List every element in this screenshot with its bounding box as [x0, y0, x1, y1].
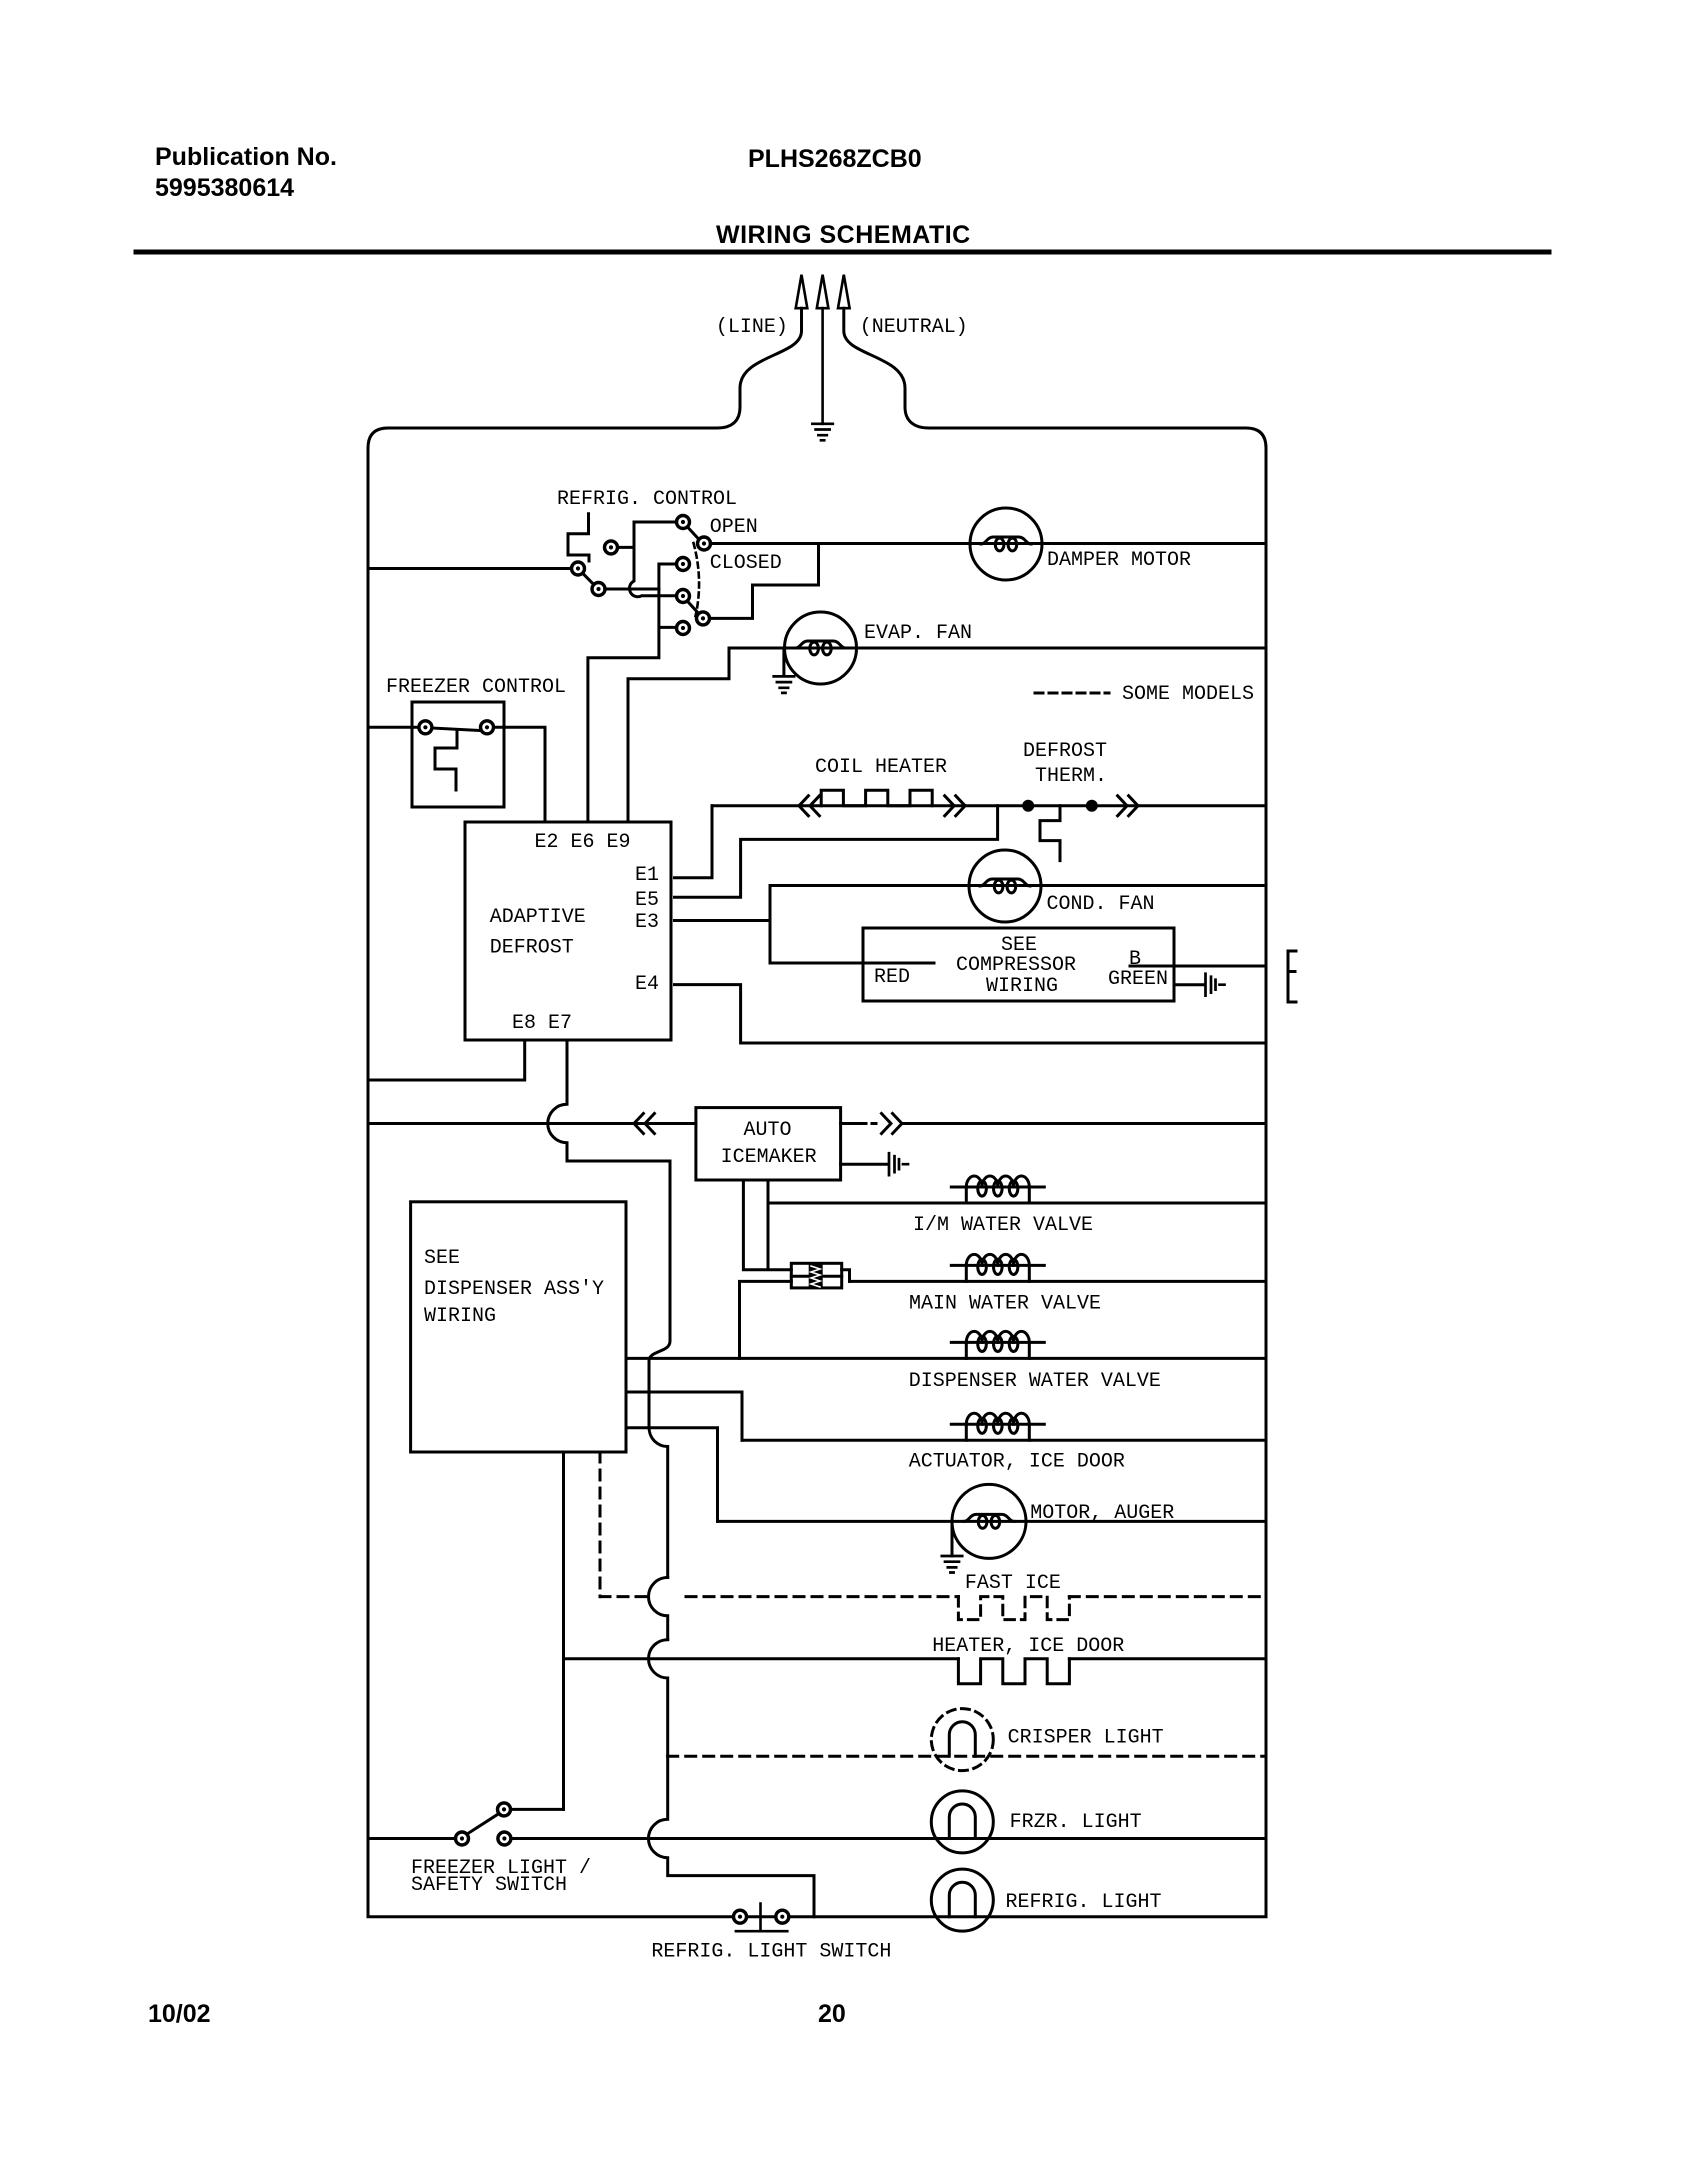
legend dashed some-models line — [1035, 692, 1109, 695]
wire dashed fast ice drop from dispenser box — [599, 1452, 602, 1597]
dashed wiper travel arc — [694, 543, 700, 616]
coil dispenser water valve — [951, 1331, 1044, 1358]
edge connector bracket — [1288, 951, 1296, 1002]
motor damper motor — [970, 508, 1042, 580]
wire E4 neutral return — [675, 985, 1267, 1043]
wire icemaker bottom pin to I/M valve line — [768, 1180, 1266, 1203]
terminal refrig control T4 — [572, 562, 585, 575]
chassis ground compressor green — [1206, 974, 1225, 996]
wire dispenser water valve line — [626, 1357, 1266, 1360]
see compressor wiring box — [863, 928, 1174, 1001]
wire dashed fast ice line right — [686, 1595, 1266, 1598]
terminal freezer control left — [419, 721, 432, 734]
svg-text:E3: E3 — [635, 911, 659, 934]
svg-text:COMPRESSOR: COMPRESSOR — [956, 954, 1076, 977]
wire actuator feed from dispenser box — [626, 1392, 742, 1440]
svg-text:Publication No.: Publication No. — [155, 143, 337, 171]
ground evap fan earth — [774, 676, 794, 693]
svg-text:PLHS268ZCB0: PLHS268ZCB0 — [748, 145, 922, 173]
arrow (NEUTRAL) supply arrow — [838, 275, 850, 309]
svg-text:5995380614: 5995380614 — [155, 174, 294, 202]
wire icemaker feed from line bus — [368, 1122, 696, 1125]
wire supply ground shaft — [821, 308, 824, 424]
ground auger earth — [942, 1556, 962, 1573]
svg-text:E8 E7: E8 E7 — [512, 1012, 572, 1035]
wire E7 riser hop over heater line — [649, 1640, 668, 1757]
svg-text:ICEMAKER: ICEMAKER — [721, 1146, 817, 1169]
arrow (LINE) supply arrow — [796, 275, 808, 309]
wire evap fan ground drop — [782, 648, 785, 676]
wire dashed fast ice line left — [600, 1595, 649, 1598]
wire actuator ice door line — [742, 1439, 1266, 1442]
terminal refrig control T8 — [697, 612, 710, 625]
svg-text:FRZR. LIGHT: FRZR. LIGHT — [1010, 1811, 1142, 1834]
wire T3 stub — [617, 546, 634, 549]
switch arm T4-T5 refrig control upper — [583, 573, 595, 585]
node defrost therm terminal 1 — [1022, 800, 1034, 812]
adaptive defrost control box — [465, 822, 671, 1040]
terminal refrig control T7 — [677, 590, 690, 603]
heating element fast ice — [958, 1597, 1069, 1620]
wire freezer light switch to dispenser drop — [511, 1808, 564, 1811]
wire evap fan feed from E9 — [628, 648, 729, 821]
wire freezer control feed — [368, 726, 419, 729]
terminal refrig control T2 — [698, 537, 711, 550]
heating element heater ice door — [958, 1659, 1069, 1684]
connector arrow icemaker left — [634, 1114, 654, 1134]
wire frzr light feed from line bus — [368, 1837, 456, 1840]
node defrost therm terminal 2 — [1086, 800, 1098, 812]
svg-text:E2 E6 E9: E2 E6 E9 — [535, 831, 631, 854]
wire icemaker bottom pin to check valve — [743, 1180, 791, 1270]
switch arm T1-T2 — [687, 526, 700, 540]
wire refrig control feed from line bus — [368, 567, 572, 570]
svg-text:(NEUTRAL): (NEUTRAL) — [860, 316, 968, 339]
auto icemaker box — [696, 1108, 841, 1180]
svg-text:FREEZER CONTROL: FREEZER CONTROL — [386, 676, 566, 699]
terminal refrig control T3 — [605, 541, 618, 554]
svg-text:FAST ICE: FAST ICE — [965, 1572, 1061, 1595]
wire auger ground drop — [951, 1521, 954, 1556]
svg-text:ADAPTIVE: ADAPTIVE — [490, 906, 586, 929]
svg-text:AUTO: AUTO — [744, 1119, 792, 1142]
terminal refrig control T1 — [677, 516, 690, 529]
svg-text:E5: E5 — [635, 889, 659, 912]
wire red compressor lead — [770, 962, 934, 965]
svg-text:COND. FAN: COND. FAN — [1047, 893, 1155, 916]
wire E7 riser hop over frzr light line — [648, 1756, 814, 1917]
terminal refrig light switch left — [734, 1910, 747, 1923]
wire heater ice door line — [564, 1657, 1267, 1660]
wire dashed crisper light line — [668, 1755, 1266, 1758]
ground supply earth — [812, 424, 832, 441]
svg-text:REFRIG. CONTROL: REFRIG. CONTROL — [557, 488, 737, 511]
svg-text:DAMPER MOTOR: DAMPER MOTOR — [1047, 549, 1191, 572]
svg-text:SEE: SEE — [424, 1247, 460, 1270]
connector arrow coil heater left — [799, 796, 819, 816]
wire E5 riser to heater line — [675, 806, 998, 898]
svg-text:GREEN: GREEN — [1108, 968, 1168, 991]
freezer control actuator link — [435, 731, 457, 790]
heating element coil heater — [821, 790, 932, 806]
motor motor auger — [952, 1484, 1026, 1558]
svg-text:DEFROST: DEFROST — [1023, 740, 1107, 763]
coil actuator ice door — [951, 1413, 1044, 1440]
wire E7 riser hop over fast ice — [649, 1577, 668, 1639]
svg-text:MOTOR, AUGER: MOTOR, AUGER — [1030, 1502, 1174, 1525]
wire T8 closed contact to damper line — [709, 545, 818, 618]
svg-text:20: 20 — [818, 2000, 846, 2028]
svg-text:CLOSED: CLOSED — [710, 552, 782, 575]
wire coil heater defrost line — [712, 804, 1266, 807]
svg-text:COIL HEATER: COIL HEATER — [815, 756, 947, 779]
svg-text:E1: E1 — [635, 864, 659, 887]
wire E8 to line bus — [368, 1041, 525, 1080]
refrig control actuator link — [568, 514, 589, 561]
wire auger feed from dispenser box — [626, 1428, 718, 1522]
wire green lead — [1174, 983, 1205, 986]
svg-text:OPEN: OPEN — [710, 516, 758, 539]
wire lower feed to check valve — [740, 1281, 792, 1358]
terminal refrig control T6 — [677, 558, 690, 571]
wire damper motor line — [710, 542, 1266, 545]
svg-text:(LINE): (LINE) — [716, 316, 788, 339]
svg-text:REFRIG. LIGHT: REFRIG. LIGHT — [1006, 1891, 1162, 1914]
svg-text:DISPENSER ASS'Y: DISPENSER ASS'Y — [424, 1278, 604, 1301]
lamp crisper light — [931, 1709, 993, 1771]
svg-text:RED: RED — [874, 966, 910, 989]
svg-text:WIRING: WIRING — [424, 1305, 496, 1328]
terminal freezer control right — [481, 721, 494, 734]
svg-text:DISPENSER WATER VALVE: DISPENSER WATER VALVE — [909, 1370, 1161, 1393]
svg-text:ACTUATOR, ICE DOOR: ACTUATOR, ICE DOOR — [909, 1451, 1125, 1474]
lamp frzr light — [931, 1791, 993, 1853]
connector arrow defrost therm right — [1118, 796, 1138, 816]
terminal freezer light switch right — [498, 1832, 511, 1845]
svg-text:EVAP. FAN: EVAP. FAN — [864, 622, 972, 645]
refrig light switch plunger — [736, 1904, 787, 1932]
wire T5 to common vertical — [605, 588, 659, 591]
wire icemaker output — [841, 1122, 876, 1125]
wire B lead to neutral bus — [1130, 965, 1266, 968]
switch arm T7-T8 — [687, 600, 700, 614]
dual check valve assembly — [791, 1263, 849, 1288]
motor cond fan — [969, 850, 1041, 922]
terminal freezer light switch upper — [498, 1803, 511, 1816]
terminal refrig control T9 — [677, 622, 690, 635]
terminal freezer light switch common — [456, 1832, 469, 1845]
wire dispenser box bottom drop — [562, 1452, 565, 1809]
wire E7 riser jog at auger feed junction — [649, 1428, 668, 1578]
defrost therm actuator zigzag — [1040, 806, 1060, 861]
terminal refrig light switch right — [776, 1910, 789, 1923]
svg-text:I/M WATER VALVE: I/M WATER VALVE — [913, 1214, 1093, 1237]
switch arm freezer control — [432, 728, 481, 731]
svg-text:MAIN WATER VALVE: MAIN WATER VALVE — [909, 1293, 1101, 1316]
wire E1 riser — [675, 806, 713, 878]
wire freezer control to E2 — [493, 727, 545, 821]
switch arm freezer light safety switch — [467, 1814, 499, 1835]
wire motor auger line — [718, 1520, 1267, 1523]
svg-text:SAFETY SWITCH: SAFETY SWITCH — [411, 1874, 567, 1897]
svg-text:SOME MODELS: SOME MODELS — [1122, 683, 1254, 706]
svg-text:HEATER, ICE DOOR: HEATER, ICE DOOR — [932, 1635, 1124, 1658]
coil main water valve — [951, 1254, 1044, 1281]
connector arrow coil heater right — [945, 796, 965, 816]
wire icemaker ground stub — [841, 1163, 888, 1166]
lamp refrig light — [931, 1869, 993, 1931]
wire cond fan line — [770, 884, 1266, 887]
svg-text:10/02: 10/02 — [148, 2000, 211, 2028]
see dispenser assy wiring box — [411, 1202, 626, 1452]
wire common vertical T6/T9 to E6 — [588, 564, 677, 821]
title underline — [136, 250, 1549, 255]
wire main water valve line — [850, 1280, 1267, 1283]
svg-text:E4: E4 — [635, 973, 659, 996]
coil I/M water valve — [951, 1176, 1044, 1203]
wire icemaker output to neutral bus — [902, 1122, 1266, 1125]
arrow ground supply arrow — [817, 275, 829, 309]
wire T1 stub and hop to T7 — [629, 522, 676, 597]
svg-text:THERM.: THERM. — [1035, 765, 1107, 788]
wire E3 riser cond fan / red — [675, 886, 771, 964]
wire evap fan line — [729, 647, 1266, 650]
svg-text:REFRIG. LIGHT SWITCH: REFRIG. LIGHT SWITCH — [651, 1940, 891, 1963]
wire frzr light line — [511, 1837, 1266, 1840]
svg-text:WIRING: WIRING — [986, 975, 1058, 998]
connector arrow icemaker right — [882, 1114, 902, 1134]
svg-text:CRISPER LIGHT: CRISPER LIGHT — [1008, 1726, 1164, 1749]
svg-text:DEFROST: DEFROST — [490, 937, 574, 960]
freezer control box — [412, 702, 504, 807]
motor evap fan — [785, 612, 857, 684]
svg-text:WIRING SCHEMATIC: WIRING SCHEMATIC — [716, 221, 971, 249]
chassis ground icemaker chassis ground — [889, 1153, 908, 1175]
wire E7 riser top with hop over icemaker feed — [548, 1041, 670, 1428]
wire main enclosure bus (line+neutral loop) — [368, 308, 1266, 1917]
terminal refrig control T5 — [592, 583, 605, 596]
